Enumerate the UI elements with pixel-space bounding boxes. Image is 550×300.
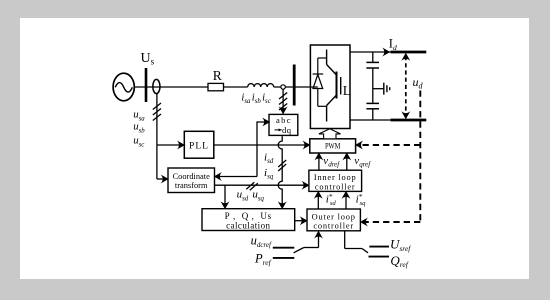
- wires isd* isq*: [318, 194, 346, 209]
- capacitor C1: [366, 52, 379, 103]
- svg-text:P , Q , Us: P , Q , Us: [225, 211, 272, 221]
- svg-text:abc: abc: [276, 115, 292, 125]
- svg-text:dq: dq: [282, 125, 292, 135]
- wire: DC bottom thin: [350, 119, 391, 121]
- transistor Q1 IGBT: [327, 50, 341, 122]
- box P Q Us calculation: [202, 209, 295, 231]
- wire: theta branch to abc-dq: [257, 122, 267, 177]
- svg-text:PLL: PLL: [189, 142, 209, 152]
- dashed feedback wire ud: [358, 91, 420, 223]
- wire: isd isq vertical with hops: [278, 136, 286, 206]
- svg-text:R: R: [213, 68, 222, 83]
- ud measurement dashed arrow: [405, 56, 407, 116]
- box Coordinate transform: [168, 168, 215, 193]
- wire: theta branch to Coordinate transform right: [217, 176, 257, 178]
- svg-text:controller: controller: [313, 222, 354, 231]
- DC top bus thick: [391, 51, 427, 54]
- converter box U1: [310, 45, 350, 129]
- svg-text:Coordinate: Coordinate: [173, 172, 210, 181]
- node N1: [281, 85, 285, 89]
- inductor L1 coil: [248, 84, 274, 87]
- svg-text:transform: transform: [175, 181, 208, 190]
- box Inner loop controller: [309, 170, 362, 191]
- capacitor C2: [366, 103, 379, 120]
- wire: capacitor midpoint: [373, 88, 384, 90]
- wire: voltage measurement drop: [153, 94, 161, 180]
- svg-text:L: L: [343, 83, 351, 98]
- svg-text:controller: controller: [315, 182, 356, 191]
- svg-text:Outer loop: Outer loop: [312, 212, 356, 221]
- svg-text:PWM: PWM: [325, 141, 341, 151]
- busbar B2: [293, 65, 296, 106]
- switch SW2 (Usref / Qref): [345, 231, 389, 256]
- box abc-dq: [269, 114, 298, 135]
- box PLL: [184, 131, 214, 158]
- DC bottom bus thick: [391, 119, 427, 122]
- svg-text:calculation: calculation: [226, 220, 270, 230]
- ground (rotated): [384, 83, 390, 95]
- wire: into PLL: [157, 144, 182, 146]
- box Outer loop controller: [307, 209, 360, 231]
- wire: into Coordinate transform left: [157, 178, 166, 180]
- hollow arrow PWM to converter: [319, 129, 341, 139]
- resistor R1: [208, 83, 224, 90]
- wire: current measurement drop to abc-dq: [279, 89, 287, 111]
- switch SW1 (udcref / Pref): [273, 234, 319, 258]
- voltage pickup ellipse: [153, 79, 160, 93]
- diode D1: [310, 58, 326, 106]
- wire: PLL output to PWM: [214, 144, 308, 146]
- wire: DC top thin with Id arrow: [350, 51, 391, 53]
- wire: calculation to Outer loop: [295, 220, 305, 222]
- wire: usd usq output line to Inner loop: [215, 182, 307, 206]
- AC source G1: [113, 73, 134, 101]
- svg-text:Inner loop: Inner loop: [314, 173, 357, 182]
- busbar B1: [145, 68, 148, 102]
- box PWM: [310, 139, 356, 153]
- wires vdref vqref: [319, 156, 347, 171]
- wire: main AC line: [134, 86, 310, 88]
